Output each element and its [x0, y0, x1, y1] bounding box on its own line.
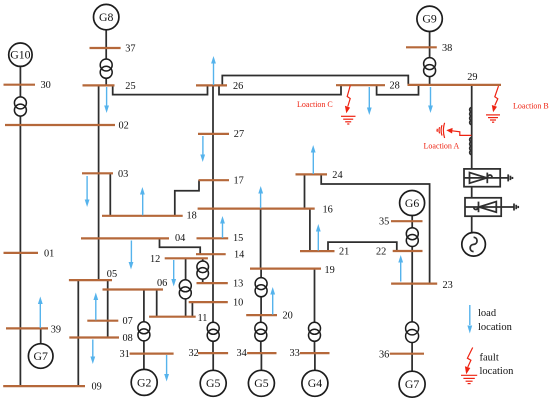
load arrow at bus 31	[164, 355, 169, 382]
bus 38	[406, 46, 437, 48]
transformer 6-31	[138, 322, 150, 341]
svg-text:06: 06	[157, 278, 167, 289]
bus 07	[87, 320, 118, 322]
rectifier converter box	[464, 169, 508, 187]
svg-text:28: 28	[390, 81, 400, 92]
load arrow at bus 26	[211, 56, 216, 85]
svg-text:G6: G6	[405, 196, 420, 210]
wire bus 20 to bus 34 through transformer	[260, 315, 262, 353]
load arrow at bus 07	[93, 293, 98, 321]
rectifier AC-side terminal symbol	[508, 174, 512, 181]
svg-text:G8: G8	[99, 10, 114, 24]
inverter AC-side terminal symbol	[514, 204, 518, 211]
wire line 23-24	[321, 174, 429, 283]
wire line 5-8 and 8-9	[77, 280, 79, 386]
wire bus 33 to G4	[314, 353, 316, 371]
load arrow at bus 27	[200, 136, 205, 162]
generator G5 at bus 34	[248, 370, 274, 396]
bus 12	[165, 257, 208, 259]
bus 32	[198, 352, 228, 354]
svg-text:18: 18	[187, 211, 197, 222]
bus 39	[6, 327, 48, 329]
load arrow at bus 08	[90, 340, 95, 365]
bus 36	[390, 353, 424, 355]
svg-text:09: 09	[92, 382, 102, 393]
bus 35	[391, 220, 423, 222]
svg-text:37: 37	[125, 44, 135, 55]
load arrow at bus 12	[171, 260, 176, 287]
generator G6	[400, 191, 425, 216]
transformer 19-20	[255, 278, 267, 297]
bus 29	[408, 84, 502, 86]
wire G6 to bus 35 to bus 22 to bus 23 through transformer	[411, 216, 413, 284]
svg-text:22: 22	[376, 247, 386, 258]
wire bus 06 to bus 31 to G2 through transformer	[143, 290, 145, 370]
svg-text:G5: G5	[254, 376, 269, 390]
svg-text:07: 07	[123, 316, 133, 327]
svg-text:G9: G9	[422, 12, 437, 26]
svg-text:19: 19	[325, 265, 335, 276]
legend fault earth	[461, 375, 477, 383]
load arrow at bus 39	[38, 297, 43, 328]
svg-text:20: 20	[283, 311, 293, 322]
svg-text:26: 26	[233, 81, 243, 92]
load arrow at bus 24	[311, 145, 316, 174]
fault location A earth arcs	[437, 123, 445, 138]
wire bus 32 to G5	[212, 353, 214, 371]
svg-text:36: 36	[379, 349, 389, 360]
bus 13	[197, 282, 228, 284]
bus 22	[393, 250, 423, 252]
wire line 10-11	[191, 302, 193, 317]
svg-text:02: 02	[119, 121, 129, 132]
load arrow at bus 22	[398, 255, 403, 282]
svg-text:15: 15	[233, 233, 243, 244]
svg-text:17: 17	[234, 176, 244, 187]
bus 02	[5, 124, 115, 126]
bus 10	[189, 301, 228, 303]
svg-text:location: location	[478, 322, 513, 333]
wire line 3-18	[109, 173, 111, 216]
generator G2	[131, 369, 157, 395]
svg-text:24: 24	[332, 170, 342, 181]
bus 21	[300, 250, 335, 252]
svg-text:33: 33	[290, 348, 300, 359]
bus 09	[3, 385, 85, 387]
svg-text:23: 23	[443, 280, 453, 291]
bus 34	[247, 352, 276, 354]
svg-text:39: 39	[51, 325, 61, 336]
svg-text:Loaction B: Loaction B	[513, 102, 549, 111]
bus 17	[199, 179, 230, 181]
fault location C earth	[341, 116, 356, 124]
load arrow at bus 21	[316, 224, 321, 251]
generator G4	[302, 370, 328, 396]
svg-text:G7: G7	[405, 377, 420, 391]
svg-text:35: 35	[379, 217, 389, 228]
bus 04	[81, 237, 169, 239]
svg-text:G5: G5	[206, 376, 221, 390]
transformer 12-11	[179, 280, 191, 299]
svg-text:21: 21	[339, 247, 349, 258]
svg-text:32: 32	[189, 348, 199, 359]
bus 37	[90, 47, 121, 49]
wire left chain 02-01-39-09	[19, 125, 21, 386]
svg-text:12: 12	[150, 254, 160, 265]
bus 19	[250, 268, 321, 270]
fault location A arrow to reactor	[446, 128, 471, 135]
transformer 12-13	[197, 261, 209, 279]
wire G9 to bus 38 to bus 29 through transformer	[429, 32, 431, 85]
svg-text:34: 34	[237, 348, 247, 359]
wire line 16-21	[309, 209, 311, 252]
wire bus 30 to bus 02 through transformer	[19, 85, 21, 125]
generator G7 at bus 36	[399, 371, 425, 397]
bus 23	[391, 283, 437, 285]
wire line 21-22	[328, 242, 397, 251]
svg-text:fault: fault	[480, 353, 499, 364]
wire line 28-29	[377, 85, 419, 95]
bus 05	[69, 279, 112, 281]
bus 24	[296, 173, 328, 175]
bus 11	[149, 316, 196, 318]
load arrow at bus 28	[367, 87, 372, 115]
wire G10 to bus 30	[19, 66, 21, 85]
load arrow at bus 20	[270, 287, 275, 315]
svg-text:08: 08	[123, 333, 133, 344]
svg-text:Loaction A: Loaction A	[424, 142, 460, 151]
svg-text:29: 29	[467, 72, 477, 83]
svg-text:load: load	[478, 308, 497, 319]
load arrow at bus 03	[85, 176, 90, 207]
wire inverter to AC source	[471, 216, 473, 232]
svg-text:05: 05	[107, 269, 117, 280]
load arrow at bus 29	[428, 87, 433, 113]
wire line 25-26	[113, 85, 208, 94]
fault location B lightning	[492, 86, 499, 112]
transformer 20-34	[255, 322, 267, 341]
wire bus 25 to bus 02 to bus 03 to bus 04	[98, 85, 100, 280]
inverter converter box	[465, 198, 514, 216]
bus 15	[197, 237, 229, 239]
svg-text:04: 04	[175, 233, 185, 244]
bus 16	[198, 208, 315, 210]
wire bus 29 down to rectifier with smoothing reactor	[471, 85, 473, 169]
svg-text:25: 25	[125, 81, 135, 92]
load arrow at bus 18	[140, 187, 145, 215]
svg-text:G10: G10	[10, 47, 30, 61]
bus 26	[196, 84, 227, 86]
wire line 26-28 bottom	[219, 85, 341, 94]
legend fault lightning	[465, 348, 473, 375]
generator G8	[94, 4, 119, 29]
transformer 37-25	[100, 59, 112, 78]
inductor smoothing reactor coil	[470, 108, 472, 155]
generator G9	[417, 6, 442, 31]
svg-text:11: 11	[198, 313, 208, 324]
load arrow at bus 04	[129, 241, 134, 270]
legend load arrow	[467, 305, 472, 334]
svg-text:13: 13	[233, 279, 243, 290]
svg-text:03: 03	[118, 169, 128, 180]
svg-text:G4: G4	[308, 376, 323, 390]
transformer 10-32	[207, 322, 219, 341]
wire bus 36 to G7	[411, 354, 413, 372]
svg-text:Loaction C: Loaction C	[297, 100, 333, 109]
bus 28	[336, 84, 385, 86]
transformer 38-29	[424, 58, 436, 77]
AC source circle	[462, 233, 486, 257]
wire bus 19 to bus 20 through transformer	[260, 269, 262, 316]
bus 25	[83, 84, 115, 86]
bus 33	[300, 352, 330, 354]
wire line 4-14	[160, 238, 201, 254]
wire line 16-19	[260, 209, 262, 269]
bus 03	[82, 172, 113, 174]
load arrow at bus 25	[104, 87, 109, 113]
wire central chain 26-27-17-16-15-14-13-10-32	[212, 85, 214, 352]
load arrow at bus 16	[258, 186, 263, 208]
bus 18	[102, 215, 183, 217]
fault location C lightning	[345, 85, 350, 113]
wire rectifier to inverter	[471, 187, 473, 198]
wire G8 to bus 37	[105, 30, 107, 48]
svg-text:27: 27	[234, 129, 244, 140]
transformer 30-02	[14, 97, 26, 116]
generator G5 at bus 32	[200, 370, 226, 396]
svg-text:38: 38	[442, 43, 452, 54]
wire line 17-18	[175, 180, 199, 216]
wire bus 34 to G5	[260, 353, 262, 371]
wire line 5-6-7-8	[107, 280, 109, 337]
generator G7 at bus 39	[28, 344, 53, 369]
bus 30	[4, 84, 36, 86]
bus 20	[246, 314, 277, 316]
fault location B earth	[486, 115, 500, 122]
wire bus 23 to bus 36 through transformer	[411, 284, 413, 354]
bus 08	[69, 336, 119, 338]
load arrow at bus 15	[220, 216, 225, 238]
bus 14	[196, 253, 226, 255]
wire line 26-29 top	[222, 76, 408, 86]
svg-text:location: location	[480, 366, 515, 377]
bus 06	[103, 288, 164, 290]
generator G10	[9, 43, 32, 66]
svg-text:30: 30	[41, 80, 51, 91]
svg-text:10: 10	[233, 298, 243, 309]
svg-text:16: 16	[323, 205, 333, 216]
wire bus 37 to bus 25 through transformer	[105, 48, 107, 85]
wire line 16-24	[304, 174, 306, 208]
svg-text:14: 14	[234, 250, 244, 261]
svg-text:31: 31	[120, 349, 130, 360]
transformer 23-36	[406, 322, 419, 343]
wire bus 12 to bus 11 through transformer	[185, 258, 187, 316]
transformer 19-33	[309, 322, 321, 341]
svg-text:G7: G7	[33, 349, 48, 363]
wire bus 12 to bus 13 through transformer	[202, 258, 204, 283]
bus 31	[130, 353, 174, 355]
transformer 35-22	[406, 228, 418, 247]
wire bus 39 to G7	[40, 328, 42, 343]
bus 01	[4, 252, 39, 254]
bus 27	[198, 133, 229, 135]
wire bus 19 to bus 33 through transformer	[314, 269, 316, 353]
svg-text:01: 01	[44, 248, 54, 259]
svg-text:G2: G2	[137, 375, 152, 389]
wire line 6-11	[156, 290, 158, 317]
